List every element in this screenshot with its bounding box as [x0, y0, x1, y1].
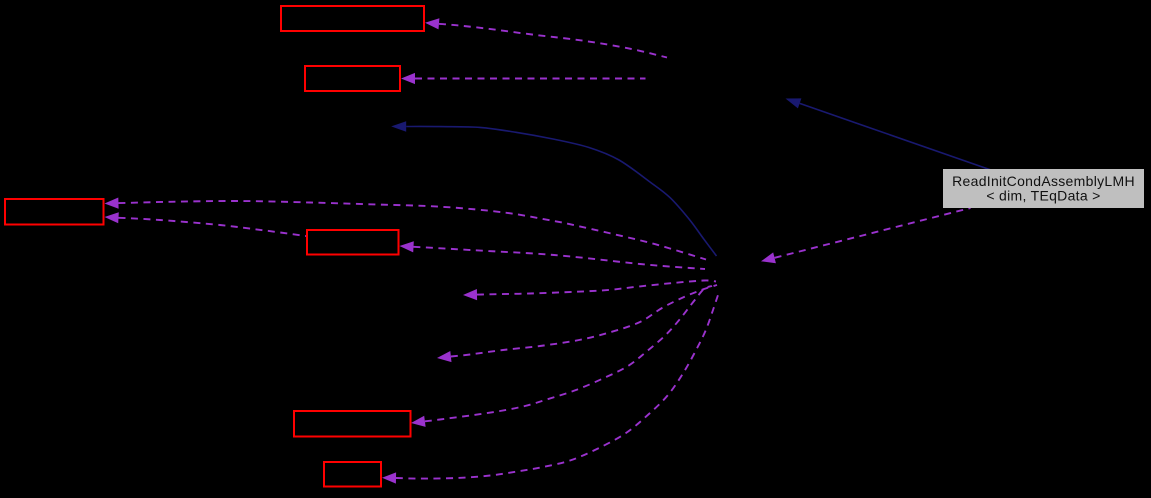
edge hub-top to node box R1: [425, 18, 667, 57]
edge hub to node box R6: [382, 292, 719, 484]
node box R6: [324, 462, 381, 487]
node box R1: [281, 6, 424, 31]
edge hub to hidden node (lower float arrow): [437, 285, 717, 362]
inheritance edge hub node to hidden base (curved blue): [391, 121, 716, 256]
edge hub to left node box R3 (upper): [105, 198, 707, 260]
node box R5: [294, 411, 411, 437]
edge middle node box R4 to left node box R3: [105, 212, 307, 236]
edge hub to node box R5: [411, 286, 712, 427]
svg-text:< dim, TEqData >: < dim, TEqData >: [986, 188, 1100, 204]
node ReadInitCondAssemblyLMH< dim, TEqData >: [943, 169, 1144, 208]
edge hub to middle node box R4: [400, 241, 706, 269]
node box R4 (middle): [307, 230, 399, 255]
edge hub-top to node box R2: [401, 73, 646, 84]
inheritance edge ReadInitCondAssemblyLMH to hidden base (straight blue): [786, 98, 992, 170]
node box R2: [305, 66, 400, 91]
edge ReadInitCondAssemblyLMH to hub node: [761, 208, 971, 263]
node box R3 (left): [5, 199, 104, 225]
edge hub to hidden node (upper float arrow): [463, 280, 716, 300]
